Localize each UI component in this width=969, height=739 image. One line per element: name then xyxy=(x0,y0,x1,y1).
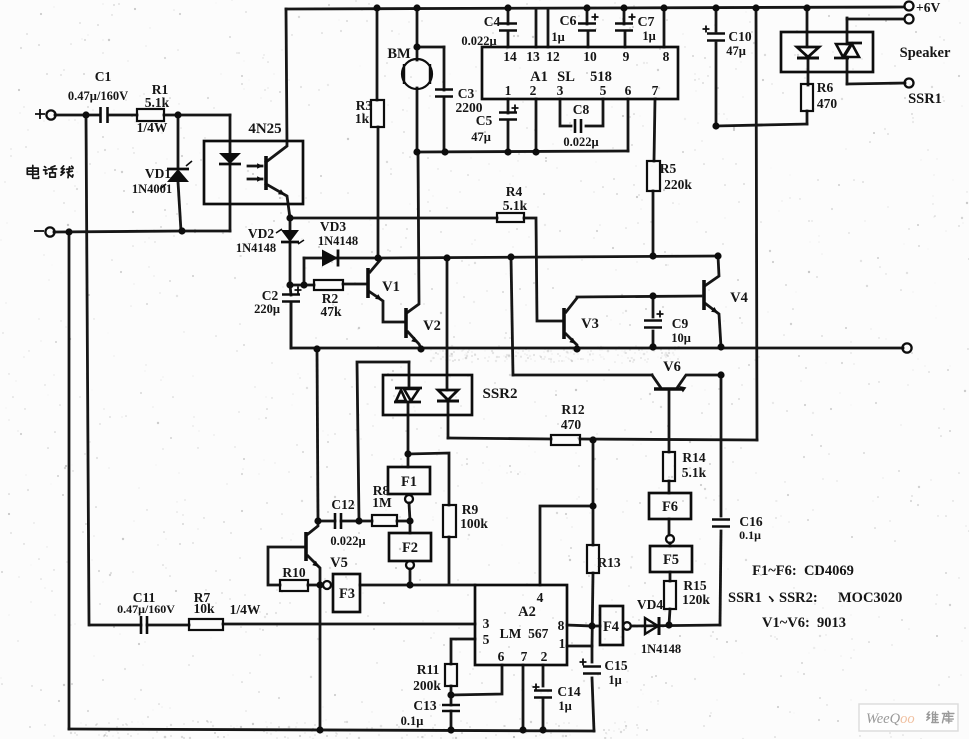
svg-text:SSR1: SSR1 xyxy=(908,91,942,107)
svg-text:R10: R10 xyxy=(282,565,305,580)
svg-text:47μ: 47μ xyxy=(726,44,746,58)
svg-text:0.47μ/160V: 0.47μ/160V xyxy=(68,89,128,103)
svg-text:1/4W: 1/4W xyxy=(230,602,261,617)
svg-text:SSR1: SSR1 xyxy=(728,590,762,606)
svg-text:Speaker: Speaker xyxy=(900,45,951,61)
svg-text:V3: V3 xyxy=(581,316,599,332)
svg-text:9: 9 xyxy=(623,49,630,64)
svg-text:V4: V4 xyxy=(730,290,748,306)
svg-text:100k: 100k xyxy=(460,516,488,531)
svg-text:R4: R4 xyxy=(506,184,523,199)
svg-text:R5: R5 xyxy=(660,161,677,176)
svg-text:1N4148: 1N4148 xyxy=(641,642,681,656)
svg-text:4: 4 xyxy=(537,590,544,605)
svg-text:14: 14 xyxy=(503,49,517,64)
svg-text:R15: R15 xyxy=(683,578,706,593)
svg-text:R14: R14 xyxy=(682,450,705,465)
svg-text:C8: C8 xyxy=(573,102,590,117)
svg-text:C12: C12 xyxy=(331,497,354,512)
svg-text:C5: C5 xyxy=(476,113,493,128)
svg-text:10: 10 xyxy=(583,49,597,64)
svg-text:C9: C9 xyxy=(672,316,689,331)
svg-text:1N4148: 1N4148 xyxy=(318,234,358,248)
svg-text:VD1: VD1 xyxy=(145,166,171,181)
svg-text:F4: F4 xyxy=(603,619,619,635)
svg-text:C13: C13 xyxy=(413,698,436,713)
svg-text:13: 13 xyxy=(526,49,540,64)
svg-text:R9: R9 xyxy=(462,502,479,517)
svg-text:F1: F1 xyxy=(401,474,417,490)
svg-text:WeeQoo: WeeQoo xyxy=(866,711,915,727)
svg-text:0.022μ: 0.022μ xyxy=(330,534,365,548)
svg-text:F6: F6 xyxy=(662,499,678,515)
svg-text:VD2: VD2 xyxy=(248,226,274,241)
svg-text:C2: C2 xyxy=(262,288,279,303)
svg-text:2: 2 xyxy=(530,83,537,98)
svg-text:5.1k: 5.1k xyxy=(503,198,528,213)
svg-text:5: 5 xyxy=(600,83,607,98)
svg-text:220k: 220k xyxy=(664,177,692,192)
svg-text:4N25: 4N25 xyxy=(248,121,281,137)
svg-text:12: 12 xyxy=(546,49,560,64)
svg-text:470: 470 xyxy=(561,417,582,432)
svg-text:A2: A2 xyxy=(518,604,536,620)
svg-text:F5: F5 xyxy=(663,552,679,568)
svg-text:R6: R6 xyxy=(817,80,834,95)
svg-text:1μ: 1μ xyxy=(642,29,655,43)
svg-text:C4: C4 xyxy=(484,14,501,29)
svg-text:3: 3 xyxy=(483,616,490,631)
svg-text:+6V: +6V xyxy=(916,0,940,15)
svg-text:BM: BM xyxy=(387,46,411,62)
svg-text:C7: C7 xyxy=(637,15,654,30)
svg-text:3: 3 xyxy=(557,83,564,98)
svg-text:F3: F3 xyxy=(339,586,355,602)
svg-text:47μ: 47μ xyxy=(471,130,491,144)
svg-text:1M: 1M xyxy=(372,495,392,510)
svg-text:6: 6 xyxy=(498,649,505,664)
svg-text:0.022μ: 0.022μ xyxy=(563,135,598,149)
svg-text:1μ: 1μ xyxy=(558,699,571,713)
svg-text:C16: C16 xyxy=(739,514,762,529)
svg-text:R11: R11 xyxy=(417,662,440,677)
svg-text:R13: R13 xyxy=(597,555,620,570)
svg-text:C15: C15 xyxy=(604,658,627,673)
svg-text:47k: 47k xyxy=(320,304,342,319)
svg-text:200k: 200k xyxy=(413,678,441,693)
svg-text:0.022μ: 0.022μ xyxy=(461,34,496,48)
svg-text:C14: C14 xyxy=(557,684,580,699)
svg-text:8: 8 xyxy=(663,49,670,64)
svg-text:C1: C1 xyxy=(95,69,112,84)
svg-text:VD3: VD3 xyxy=(320,219,346,234)
svg-text:7: 7 xyxy=(652,83,659,98)
svg-text:5.1k: 5.1k xyxy=(682,465,707,480)
svg-text:F1~F6: CD4069: F1~F6: CD4069 xyxy=(752,563,854,579)
svg-text:10k: 10k xyxy=(193,601,215,616)
svg-text:SSR2:: SSR2: xyxy=(779,590,818,606)
svg-text:V1: V1 xyxy=(382,279,400,295)
svg-text:220μ: 220μ xyxy=(254,302,280,316)
svg-text:1μ: 1μ xyxy=(608,673,621,687)
svg-text:1/4W: 1/4W xyxy=(137,120,168,135)
svg-text:0.1μ: 0.1μ xyxy=(739,528,761,542)
svg-text:C6: C6 xyxy=(559,14,576,29)
svg-text:0.1μ: 0.1μ xyxy=(401,714,424,728)
svg-text:1μ: 1μ xyxy=(551,30,564,44)
svg-text:1: 1 xyxy=(505,83,512,98)
svg-text:5: 5 xyxy=(483,632,490,647)
svg-text:470: 470 xyxy=(817,96,838,111)
svg-text:MOC3020: MOC3020 xyxy=(838,590,902,606)
svg-text:V5: V5 xyxy=(330,555,348,571)
svg-text:1k: 1k xyxy=(355,111,370,126)
svg-text:0.47μ/160V: 0.47μ/160V xyxy=(117,602,175,616)
svg-text:SSR2: SSR2 xyxy=(482,386,517,402)
svg-text:VD4: VD4 xyxy=(637,597,663,612)
svg-text:5.1k: 5.1k xyxy=(145,95,170,110)
svg-text:LM 567: LM 567 xyxy=(500,626,549,641)
svg-text:2: 2 xyxy=(541,649,548,664)
svg-text:R12: R12 xyxy=(561,402,584,417)
svg-text:1N4001: 1N4001 xyxy=(132,182,172,196)
svg-text:V1~V6: 9013: V1~V6: 9013 xyxy=(762,615,846,631)
svg-text:C3: C3 xyxy=(458,86,475,101)
svg-text:6: 6 xyxy=(625,83,632,98)
svg-text:1: 1 xyxy=(559,636,566,651)
svg-text:120k: 120k xyxy=(682,592,710,607)
svg-text:10μ: 10μ xyxy=(671,331,691,345)
svg-text:1N4148: 1N4148 xyxy=(236,241,276,255)
svg-text:C10: C10 xyxy=(728,29,751,44)
svg-text:8: 8 xyxy=(558,618,565,633)
svg-text:7: 7 xyxy=(521,649,528,664)
svg-text:V6: V6 xyxy=(663,359,681,375)
svg-text:F2: F2 xyxy=(402,540,418,556)
svg-text:V2: V2 xyxy=(423,318,441,334)
